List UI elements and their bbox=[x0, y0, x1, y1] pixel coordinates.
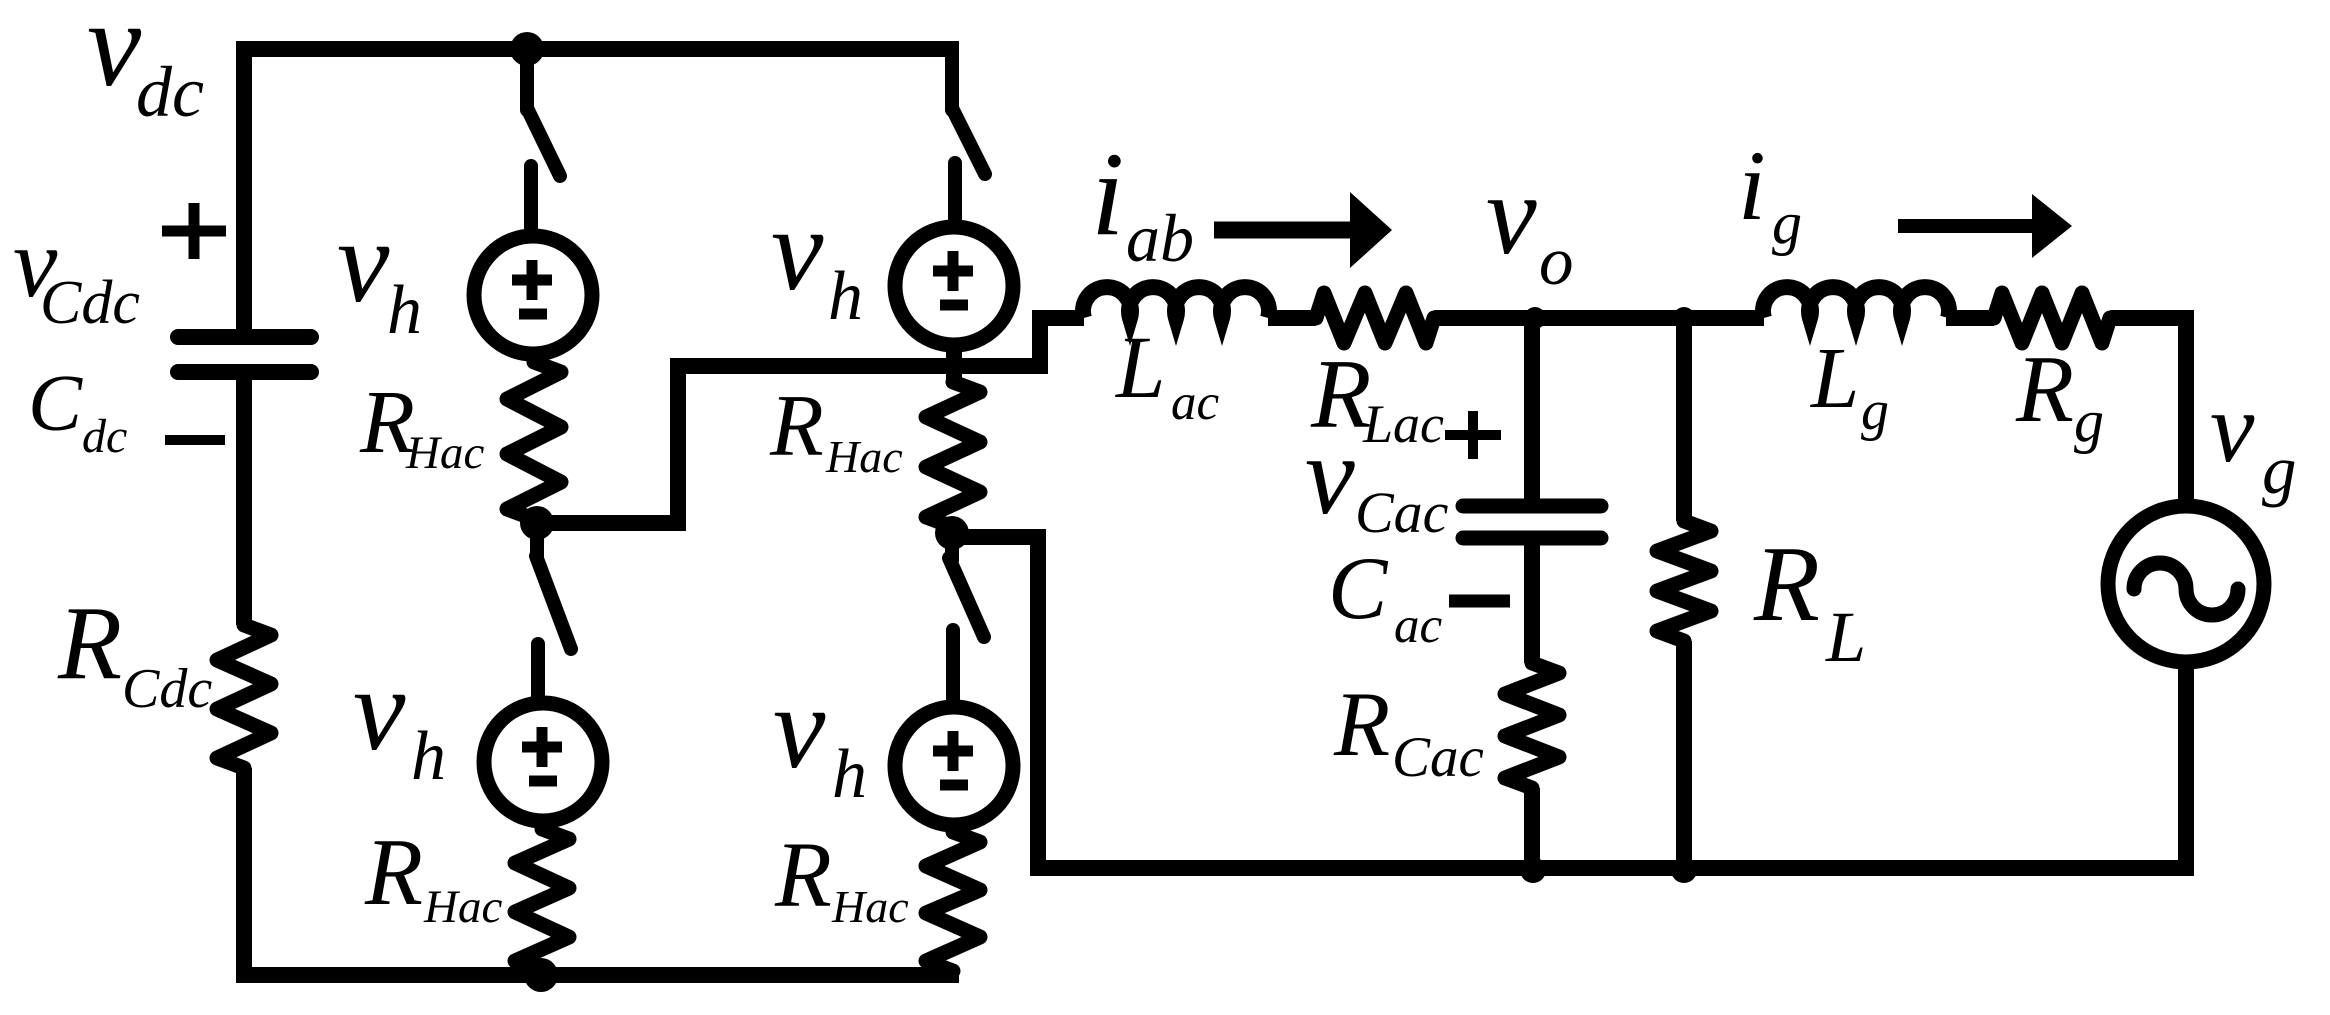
node junction dot bottom rail / leg A bbox=[524, 958, 558, 992]
source v_h (leg B bottom) bbox=[895, 707, 1013, 825]
svg-text:Hac: Hac bbox=[423, 881, 502, 933]
source v_g (grid) bbox=[2108, 506, 2264, 662]
source v_h (leg A bottom) bbox=[484, 703, 602, 821]
svg-text:Cdc: Cdc bbox=[122, 658, 212, 720]
plus sign of v_Cac bbox=[1445, 411, 1501, 459]
plus sign of v_Cdc bbox=[162, 203, 226, 259]
svg-text:v: v bbox=[2210, 372, 2255, 483]
wire source B to node bbox=[946, 345, 962, 385]
wire v_o down to C_ac bbox=[1524, 318, 1540, 499]
svg-text:dc: dc bbox=[136, 52, 204, 132]
wire node b to AC bottom rail and v_g return bbox=[952, 537, 2186, 868]
wire R_L branch lower bbox=[1676, 641, 1692, 868]
svg-text:dc: dc bbox=[82, 410, 127, 463]
svg-text:ac: ac bbox=[1394, 598, 1443, 654]
switch S2 (leg B top) bbox=[945, 55, 959, 110]
svg-text:C: C bbox=[1328, 540, 1389, 638]
svg-text:v: v bbox=[1305, 414, 1355, 538]
node a junction dot (leg A mid) bbox=[520, 506, 554, 540]
svg-text:Cac: Cac bbox=[1355, 480, 1449, 545]
svg-text:R: R bbox=[774, 824, 832, 927]
resistor R_Cdc bbox=[217, 625, 271, 768]
switch S3 (leg A bottom) bbox=[530, 528, 544, 558]
current arrow i_g bbox=[1898, 219, 2036, 233]
svg-text:h: h bbox=[828, 258, 863, 335]
node junction dot R_L branch / bottom rail bbox=[1671, 857, 1697, 883]
resistor R_L bbox=[1657, 521, 1711, 641]
svg-text:R: R bbox=[57, 584, 122, 701]
svg-text:v: v bbox=[337, 196, 390, 327]
svg-text:Hac: Hac bbox=[405, 427, 484, 479]
inductor L_g bbox=[1763, 287, 1949, 318]
wire C_ac to R_Cac bbox=[1524, 545, 1540, 663]
svg-text:v: v bbox=[87, 0, 142, 112]
minus sign of v_Cdc bbox=[165, 435, 225, 445]
svg-text:L: L bbox=[1825, 597, 1866, 677]
node junction dot C_ac branch / bottom rail bbox=[1520, 857, 1546, 883]
svg-text:R: R bbox=[364, 819, 423, 925]
svg-text:v: v bbox=[771, 184, 824, 315]
svg-text:h: h bbox=[411, 718, 446, 795]
svg-text:i: i bbox=[1738, 130, 1766, 241]
svg-text:ab: ab bbox=[1126, 200, 1194, 276]
svg-text:Lac: Lac bbox=[1362, 394, 1444, 454]
svg-text:Hac: Hac bbox=[825, 431, 903, 482]
wire R_Cac to bottom rail bbox=[1524, 788, 1540, 868]
svg-text:ac: ac bbox=[1171, 375, 1220, 431]
wire R_g to v_g bbox=[2110, 310, 2186, 507]
svg-text:R: R bbox=[2015, 336, 2074, 442]
svg-text:h: h bbox=[832, 736, 867, 813]
svg-text:v: v bbox=[1486, 151, 1537, 278]
svg-text:g: g bbox=[2074, 388, 2104, 454]
svg-text:C: C bbox=[28, 358, 83, 448]
resistor R_Lac bbox=[1316, 293, 1434, 343]
switch S1 (leg A top) bbox=[520, 55, 534, 110]
node b junction dot (leg B mid) bbox=[935, 516, 969, 550]
wire node a to inductor (jog) bbox=[537, 318, 1084, 523]
wire L_g to R_g bbox=[1946, 310, 1994, 326]
node v_o junction dot bbox=[1524, 307, 1546, 329]
svg-text:Cdc: Cdc bbox=[40, 269, 140, 337]
wire R_L branch upper bbox=[1676, 318, 1692, 521]
svg-text:g: g bbox=[1861, 380, 1889, 442]
resistor R_Cac bbox=[1505, 663, 1559, 788]
svg-text:L: L bbox=[1809, 329, 1859, 426]
wire top rail (v_dc bus) bbox=[236, 41, 959, 57]
switch S4 (leg B bottom) bbox=[945, 538, 959, 560]
svg-text:o: o bbox=[1539, 223, 1574, 299]
svg-text:v: v bbox=[353, 644, 406, 775]
svg-text:R: R bbox=[769, 378, 824, 475]
wire left rail upper segment bbox=[236, 41, 252, 330]
resistor R_Hac (leg A top) bbox=[507, 362, 561, 519]
capacitor C_ac bbox=[1463, 506, 1601, 538]
svg-text:Cac: Cac bbox=[1392, 726, 1484, 789]
resistor R_Hac (leg B bottom) bbox=[926, 832, 980, 971]
source v_h (leg B top) bbox=[895, 227, 1013, 345]
svg-text:v: v bbox=[773, 662, 826, 793]
wire inductor to R_Lac bbox=[1268, 310, 1316, 326]
wire left rail lower segment bbox=[236, 768, 252, 975]
node junction dot top rail / leg A bbox=[510, 32, 544, 66]
minus sign of v_Cac bbox=[1449, 595, 1510, 608]
wire bottom rail (bridge) bbox=[236, 967, 959, 983]
inductor L_ac bbox=[1083, 287, 1269, 318]
resistor R_Hac (leg B top) bbox=[926, 382, 980, 527]
capacitor C_dc bbox=[178, 337, 311, 372]
svg-text:L: L bbox=[1114, 319, 1166, 417]
svg-text:g: g bbox=[2262, 432, 2297, 508]
svg-text:R: R bbox=[1333, 673, 1390, 775]
node junction dot R_L branch top bbox=[1673, 307, 1695, 329]
wire R_Lac to v_g corner bbox=[1434, 310, 1764, 326]
svg-text:i: i bbox=[1091, 127, 1124, 260]
svg-text:h: h bbox=[387, 272, 422, 349]
source v_h (leg A top) bbox=[474, 236, 592, 354]
current arrow i_ab bbox=[1214, 222, 1356, 239]
resistor R_Hac (leg A bottom) bbox=[515, 829, 569, 971]
resistor R_g bbox=[1994, 293, 2110, 343]
svg-text:R: R bbox=[1753, 525, 1820, 644]
wire left rail mid segment bbox=[236, 372, 252, 625]
svg-text:g: g bbox=[1772, 190, 1802, 256]
svg-text:Hac: Hac bbox=[831, 881, 909, 932]
